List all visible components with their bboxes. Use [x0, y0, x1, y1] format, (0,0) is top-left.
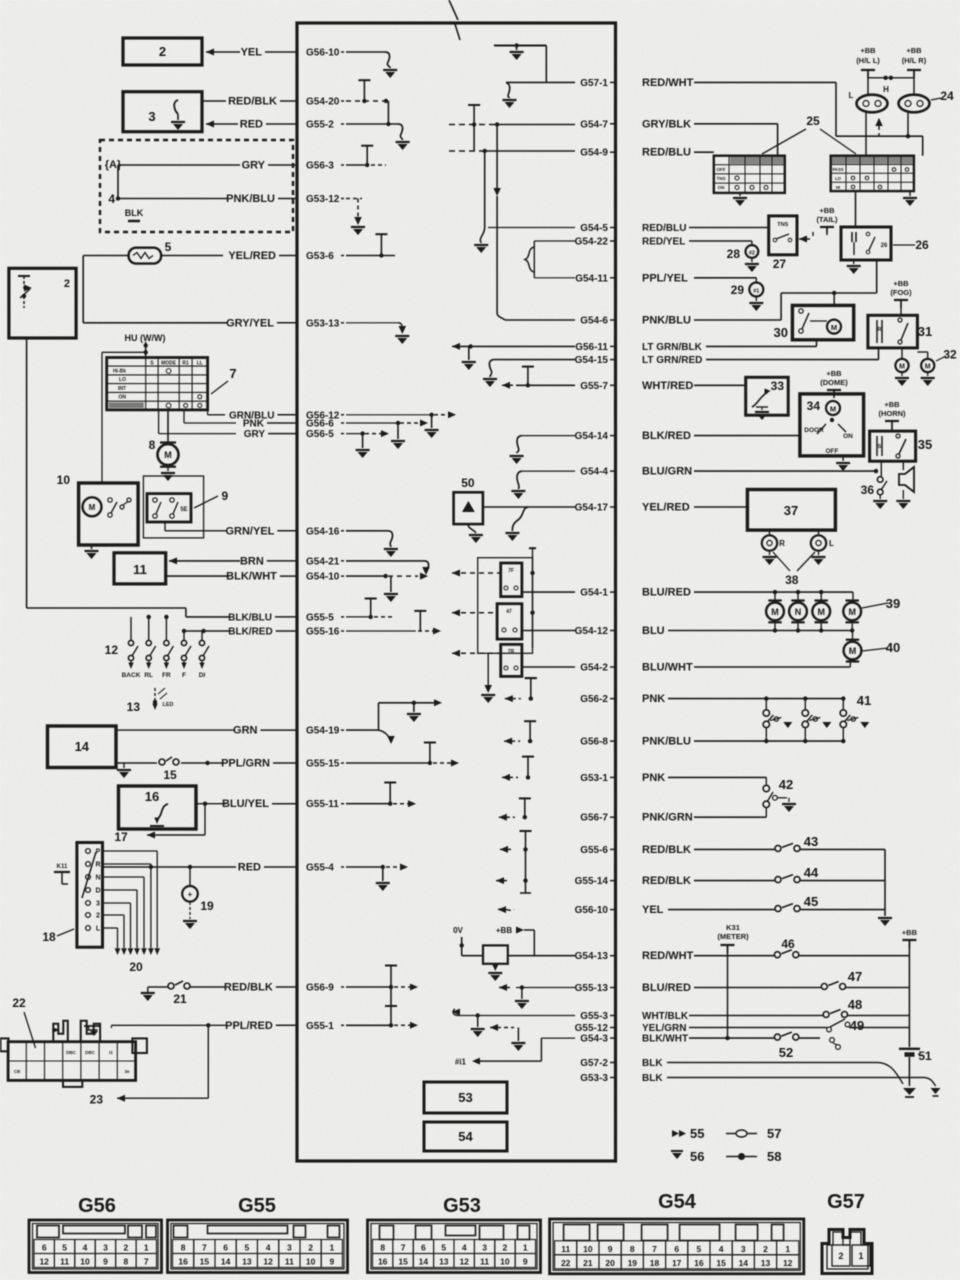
svg-text:RED: RED: [238, 862, 261, 874]
svg-text:R: R: [779, 539, 785, 548]
dashed link to relay 27: [799, 232, 813, 243]
svg-text:12: 12: [459, 1257, 469, 1267]
svg-text:20: 20: [605, 1258, 615, 1268]
wire bundle to 20: [103, 851, 161, 974]
relay 30 box: [774, 305, 854, 340]
svg-text:RED/BLU: RED/BLU: [642, 147, 691, 159]
pin G55-16 internal wire: [346, 611, 441, 635]
svg-text:+BB: +BB: [819, 206, 835, 215]
pin G54-22 wire RED/YEL (right): [575, 237, 686, 248]
pin G54-9 wire RED/BLU (right): [580, 147, 691, 159]
pin G54-19 internal wire: [346, 699, 442, 744]
svg-text:4: 4: [266, 1243, 271, 1253]
svg-text:RL: RL: [144, 672, 153, 679]
horn: [896, 461, 914, 509]
wire BLK/BLU to pin G55-5 (left): [228, 612, 344, 623]
svg-text:G56-7: G56-7: [580, 813, 608, 824]
pin G54-1 internal wire: [522, 591, 575, 593]
wire YEL to pin G56-10 (left): [241, 47, 344, 59]
svg-text:PNK/BLU: PNK/BLU: [642, 315, 691, 327]
svg-text:RED: RED: [240, 119, 263, 131]
switch 21: [141, 981, 226, 1006]
svg-text:21: 21: [173, 992, 187, 1006]
svg-text:50: 50: [461, 476, 475, 490]
svg-text:33: 33: [771, 379, 785, 393]
pin G54-22 internal wire and brace: [525, 241, 575, 278]
svg-text:GRY: GRY: [242, 160, 266, 172]
relay 35 box: [870, 431, 916, 461]
svg-text:S: S: [878, 444, 882, 450]
svg-text:15: 15: [200, 1257, 210, 1267]
wire RED/YEL to 28: [689, 241, 752, 245]
svg-text:11: 11: [285, 1257, 294, 1267]
svg-text:31: 31: [918, 324, 932, 339]
svg-text:M: M: [831, 323, 837, 332]
relay 26 ground: [847, 260, 861, 274]
svg-text:+BB: +BB: [826, 369, 842, 378]
pin G54-12 internal wire: [522, 630, 575, 632]
wire PNK/GRN run: [694, 816, 766, 818]
wire GRY/BLK run: [694, 124, 778, 156]
pin G54-15 wire LT GRN/RED (right): [575, 355, 703, 366]
svg-text:BLK: BLK: [125, 208, 144, 218]
svg-text:5: 5: [165, 240, 172, 254]
LED 13: [127, 688, 174, 714]
component 34 dome switch: [800, 394, 864, 471]
svg-text:38: 38: [785, 573, 799, 587]
wire BRN to pin G54-21 (left): [240, 555, 344, 567]
svg-text:G54-2: G54-2: [580, 663, 608, 674]
svg-text:M: M: [830, 405, 836, 414]
svg-text:10: 10: [500, 1257, 510, 1267]
svg-text:CB: CB: [14, 1069, 21, 1074]
label 39: [862, 596, 900, 611]
svg-text:11: 11: [480, 1257, 489, 1267]
svg-text:1: 1: [785, 1244, 790, 1254]
svg-text:14: 14: [75, 739, 90, 754]
pin G54-17 internal wire: [483, 507, 575, 541]
component 7 switch table: [107, 358, 237, 410]
svg-text:G55-1: G55-1: [306, 1021, 334, 1032]
driver assembly outline: [478, 558, 533, 654]
wire BLU/RED run: [694, 590, 853, 594]
wire table to PNK: [184, 410, 236, 423]
fuse 5: [129, 240, 172, 264]
svg-text:2: 2: [838, 1251, 843, 1261]
svg-text:35: 35: [918, 437, 932, 452]
svg-text:G57: G57: [827, 1191, 865, 1213]
connector G53 label: [443, 1195, 481, 1217]
svg-text:G53-1: G53-1: [580, 773, 608, 784]
wire PNK/BLU run: [694, 739, 846, 743]
switch 45 row: [668, 894, 885, 912]
svg-text:RED/BLK: RED/BLK: [642, 875, 691, 887]
svg-text:L: L: [829, 539, 834, 548]
svg-text:I1: I1: [109, 1050, 113, 1055]
svg-text:RED/WHT: RED/WHT: [642, 77, 694, 89]
wire PPL/RED to pin G55-1 (left): [225, 1020, 344, 1032]
label 4: [108, 192, 115, 206]
pin G54-2 internal wire: [522, 666, 575, 668]
speaker R: [762, 530, 785, 565]
svg-text:16: 16: [694, 1258, 704, 1268]
svg-text:19: 19: [628, 1258, 638, 1268]
svg-text:21: 21: [583, 1258, 593, 1268]
pin G55-15 internal wire: [346, 743, 459, 767]
driver dashed feed 2: [452, 609, 497, 616]
svg-text:G56-11: G56-11: [575, 342, 608, 353]
svg-text:1: 1: [144, 1243, 149, 1253]
svg-text:48: 48: [848, 997, 862, 1012]
svg-text:G56-2: G56-2: [580, 694, 608, 705]
svg-text:8: 8: [149, 438, 156, 452]
pin G55-6 internal stem: [500, 831, 532, 861]
switch bank 12: [105, 617, 209, 669]
wire GRY to pin G56-5 (left): [244, 429, 344, 440]
svg-text:+BB: +BB: [496, 926, 512, 935]
pin G54-6 wire PNK/BLU (right): [580, 315, 691, 327]
main unit box: [297, 23, 616, 1161]
wire RED/BLK stub: [202, 100, 226, 102]
svg-text:INT: INT: [118, 386, 126, 392]
pin G56-8 internal stem: [504, 721, 536, 744]
pin G54-1 wire BLU/RED (right): [580, 587, 691, 599]
pin G56-12 internal wire: [346, 411, 456, 418]
pin G54-10 internal wire: [346, 573, 428, 602]
svg-text:2: 2: [159, 44, 166, 59]
wire table to GRY: [159, 410, 236, 434]
svg-text:R: R: [878, 327, 882, 333]
svg-text:YEL: YEL: [241, 47, 263, 59]
wire PPL/GRN with switch 15: [116, 757, 224, 782]
svg-text:G54-12: G54-12: [575, 626, 609, 637]
svg-text:8: 8: [630, 1244, 635, 1254]
headlight bulb right: [899, 95, 930, 113]
svg-text:M: M: [89, 503, 96, 512]
svg-text:G53-13: G53-13: [306, 318, 340, 329]
svg-text:G54-21: G54-21: [306, 556, 340, 567]
wire relay 26 to PNK/BLU: [694, 260, 877, 320]
svg-text:(FOG): (FOG): [890, 288, 912, 297]
svg-text:M: M: [817, 607, 825, 617]
svg-text:3: 3: [103, 1243, 108, 1253]
svg-text:G53-6: G53-6: [306, 251, 334, 262]
component 9 box: [147, 489, 228, 522]
motor group 39: [766, 592, 861, 630]
svg-text:2: 2: [124, 1243, 129, 1253]
legend symbol 57: [726, 1126, 781, 1141]
component 11 box: [114, 553, 166, 584]
wire GRY/YEL to pin G53-13 (left): [226, 317, 344, 329]
connector G53: [368, 1220, 541, 1273]
pin G53-6 internal wire junction: [346, 234, 395, 258]
component 18 shift position switch: [42, 843, 102, 948]
svg-text:G54-13: G54-13: [575, 951, 609, 962]
svg-text:15: 15: [398, 1257, 408, 1267]
svg-text:G53-3: G53-3: [580, 1073, 608, 1084]
pin G55-7 internal wire: [502, 367, 575, 389]
svg-text:+BB: +BB: [906, 46, 922, 55]
svg-text:R1: R1: [182, 361, 189, 367]
svg-text:G56-9: G56-9: [306, 983, 334, 994]
wire YEL/RED to pin G53-6 (left): [228, 250, 344, 262]
connector G57: [822, 1230, 872, 1274]
breaker 28: [727, 245, 759, 272]
svg-text:PNK: PNK: [642, 693, 665, 705]
svg-text:#2: #2: [749, 251, 755, 257]
svg-text:G54-14: G54-14: [575, 431, 609, 442]
power feed +BB right: [902, 928, 918, 1047]
wire 9 to GRN/YEL: [165, 522, 226, 531]
svg-text:43: 43: [804, 834, 818, 849]
motor 8: [149, 410, 179, 481]
pin G54-2 wire BLU/WHT (right): [580, 662, 693, 674]
wire 17 return: [114, 804, 205, 844]
svg-text:G56-10: G56-10: [306, 48, 340, 59]
svg-text:PASS: PASS: [832, 167, 843, 172]
svg-text:3: 3: [148, 109, 155, 124]
svg-text:G54-7: G54-7: [580, 119, 608, 130]
pin G55-12 internal wire: [490, 1024, 525, 1051]
svg-text:M: M: [925, 364, 931, 371]
svg-text:G54-15: G54-15: [575, 355, 609, 366]
svg-text:YEL: YEL: [642, 904, 664, 916]
svg-text:18: 18: [650, 1258, 660, 1268]
pin G54-7 internal wire: [449, 105, 575, 196]
component 3 box: [123, 92, 202, 132]
pin G53-3 wire BLK (right): [580, 1073, 663, 1084]
svg-text:32: 32: [943, 348, 957, 362]
connector G55: [168, 1220, 348, 1273]
svg-text:GRY/YEL: GRY/YEL: [226, 317, 274, 329]
component 10 box: [57, 473, 138, 545]
pin G56-3 internal wire junction: [346, 146, 386, 168]
svg-text:PNK/BLU: PNK/BLU: [226, 193, 275, 205]
svg-text:LT GRN/BLK: LT GRN/BLK: [642, 342, 703, 353]
svg-text:G53: G53: [443, 1195, 481, 1217]
svg-text:10: 10: [583, 1244, 593, 1254]
svg-text:G56-10: G56-10: [575, 905, 609, 916]
pin G54-3 wire BLK/WHT (right): [580, 1034, 688, 1045]
svg-text:2: 2: [96, 913, 100, 920]
svg-text:LT GRN/RED: LT GRN/RED: [642, 355, 702, 366]
svg-text:5: 5: [245, 1243, 250, 1253]
component 53 box: [424, 1082, 507, 1113]
power feed +BB H/L R: [902, 46, 927, 95]
svg-text:M: M: [848, 607, 856, 617]
wire BLU/WHT run: [694, 660, 850, 668]
power feed +BB FOG: [890, 279, 912, 315]
svg-text:9: 9: [330, 1257, 335, 1267]
svg-text:G55-2: G55-2: [306, 120, 334, 131]
power feed +BB HORN: [878, 400, 906, 431]
svg-text:BLK/BLU: BLK/BLU: [228, 612, 272, 623]
svg-text:LED: LED: [163, 702, 174, 708]
page tick mark: [449, 0, 460, 40]
pin G56-5 internal wire: [346, 423, 405, 458]
svg-text:ON: ON: [843, 433, 853, 440]
wire YEL/RED from fuse: [83, 255, 223, 257]
svg-text:42: 42: [779, 777, 793, 792]
svg-text:55: 55: [690, 1126, 704, 1141]
svg-text:G54-11: G54-11: [575, 273, 608, 284]
wire BLU/GRN run: [694, 469, 878, 473]
svg-text:16: 16: [178, 1257, 188, 1267]
pin G54-21 internal wire: [346, 561, 430, 575]
svg-text:51: 51: [918, 1049, 932, 1063]
svg-text:3: 3: [96, 901, 100, 908]
svg-text:3: 3: [287, 1243, 292, 1253]
svg-text:BLK: BLK: [642, 1073, 663, 1084]
svg-text:DBC: DBC: [66, 1050, 76, 1055]
connector G56 label: [78, 1195, 116, 1217]
pin G56-11 internal wire: [452, 343, 575, 370]
bus 43-45 to ground: [878, 849, 892, 926]
pin G55-14 internal stem: [496, 861, 531, 893]
table 25 left ground: [733, 193, 747, 206]
svg-text:1: 1: [858, 1251, 863, 1261]
svg-text:49: 49: [850, 1018, 864, 1033]
svg-text:18: 18: [42, 930, 56, 944]
pin G56-10b internal wire: [498, 906, 514, 913]
svg-text:BLK/RED: BLK/RED: [642, 430, 691, 442]
switch 36: [861, 461, 888, 509]
svg-text:G55-3: G55-3: [580, 1011, 608, 1022]
svg-text:N: N: [95, 875, 100, 882]
svg-text:15: 15: [163, 768, 177, 782]
svg-text:PNK: PNK: [243, 419, 265, 430]
svg-text:8: 8: [124, 1257, 129, 1267]
svg-text:YEL/RED: YEL/RED: [642, 502, 690, 514]
svg-text:PNK: PNK: [642, 772, 665, 784]
svg-text:58: 58: [767, 1149, 781, 1164]
svg-text:3: 3: [741, 1244, 746, 1254]
svg-text:(HORN): (HORN): [878, 409, 906, 418]
wire RED stub with arrow: [206, 121, 238, 128]
component 54 box: [424, 1122, 507, 1151]
svg-text:7R: 7R: [508, 649, 515, 655]
component 4 dashed box: [100, 140, 293, 232]
pin G54-12 wire BLU (right): [575, 625, 665, 637]
svg-text:2: 2: [308, 1243, 313, 1253]
svg-text:DBC: DBC: [85, 1050, 95, 1055]
connector G54: [550, 1219, 804, 1274]
svg-text:2: 2: [503, 1243, 508, 1253]
svg-text:RED/BLK: RED/BLK: [224, 982, 273, 994]
svg-text:G54-9: G54-9: [580, 148, 608, 159]
connector G54 label: [658, 1191, 697, 1213]
pin G54-14 internal wire to ground: [510, 436, 575, 464]
pin G56-2 internal stem: [505, 678, 537, 702]
wire BLK/RED row left: [182, 629, 229, 633]
svg-text:H: H: [883, 85, 889, 94]
pin G54-11 internal wire: [534, 277, 575, 279]
svg-text:RED/BLK: RED/BLK: [642, 844, 691, 856]
wire RED/WHT run: [694, 82, 923, 155]
svg-text:2: 2: [763, 1244, 768, 1254]
wire RED row left: [104, 865, 236, 869]
svg-text:G54-4: G54-4: [580, 467, 608, 478]
svg-text:13: 13: [761, 1258, 771, 1268]
svg-text:17: 17: [672, 1258, 682, 1268]
component 14 box: [48, 726, 117, 768]
wire BLK/WHT from 11: [166, 575, 229, 577]
pin G56-7 internal stem: [499, 798, 531, 820]
svg-text:G53-12: G53-12: [306, 194, 340, 205]
pin G54-3 internal wire: [455, 1038, 575, 1066]
svg-text:G54-22: G54-22: [575, 237, 609, 248]
svg-text:G55-4: G55-4: [306, 863, 334, 874]
svg-text:BLK/RED: BLK/RED: [228, 627, 272, 638]
svg-text:GRY: GRY: [244, 429, 266, 440]
wire LT GRN/BLK run: [706, 340, 817, 347]
pin G56-8 wire PNK/BLU (right): [580, 736, 691, 748]
svg-text:45: 45: [804, 894, 818, 909]
svg-text:22: 22: [12, 996, 26, 1010]
lamp 19: [182, 867, 214, 929]
svg-text:6: 6: [421, 1243, 426, 1253]
K11 power symbol: [54, 864, 70, 884]
svg-text:5E: 5E: [180, 507, 187, 513]
svg-text:G54-17: G54-17: [575, 503, 609, 514]
legend symbol 58: [726, 1149, 781, 1164]
wire PPL/YEL run: [694, 278, 756, 283]
svg-text:G54-6: G54-6: [580, 316, 608, 327]
0V label: [453, 926, 463, 935]
svg-text:5: 5: [62, 1243, 67, 1253]
svg-text:HU (W/W): HU (W/W): [125, 333, 166, 343]
svg-text:26: 26: [915, 238, 929, 252]
svg-text:ON: ON: [119, 395, 127, 401]
wire GRY inside box4: [118, 165, 240, 199]
svg-text:34: 34: [807, 399, 821, 413]
svg-text:BLU/GRN: BLU/GRN: [642, 466, 692, 478]
component 2 box (left): [9, 268, 76, 338]
svg-text:(TAIL): (TAIL): [816, 215, 838, 224]
svg-text:G56-3: G56-3: [306, 161, 334, 172]
svg-text:24: 24: [940, 89, 954, 103]
wire PPL/GRN to pin G55-15 (left): [221, 758, 344, 770]
svg-text:GRY/BLK: GRY/BLK: [642, 118, 691, 130]
legend symbol 56: [671, 1149, 704, 1164]
svg-text:15: 15: [716, 1258, 726, 1268]
pin G56-10 internal wire to ground: [346, 52, 397, 78]
svg-text:4: 4: [83, 1243, 88, 1253]
svg-text:16: 16: [378, 1257, 388, 1267]
wire BLK/WHT to pin G54-10 (left): [226, 571, 344, 583]
svg-text:29: 29: [731, 283, 745, 297]
component 22 connector: [1, 996, 147, 1087]
svg-text:RED/WHT: RED/WHT: [642, 950, 694, 962]
component 37 box: [747, 490, 835, 531]
pin G54-14 wire BLK/RED (right): [575, 430, 691, 442]
svg-text:K11: K11: [57, 864, 68, 870]
wire GRN/BLU to pin G56-12 (left): [229, 410, 344, 421]
svg-text:G55-6: G55-6: [580, 845, 608, 856]
switch 49 row YEL/GRN: [689, 1018, 909, 1049]
svg-text:G56-6: G56-6: [306, 419, 334, 430]
wire RED/BLU to relay 27: [689, 227, 769, 229]
svg-text:G54-10: G54-10: [306, 572, 340, 583]
svg-text:N: N: [795, 607, 802, 617]
svg-text:20: 20: [129, 960, 143, 974]
svg-text:4: 4: [462, 1243, 467, 1253]
pin G55-14 wire RED/BLK (right): [575, 875, 691, 887]
svg-text:G57-2: G57-2: [580, 1058, 608, 1069]
pin G54-15 internal wire: [483, 360, 575, 387]
svg-text:7F: 7F: [508, 568, 514, 574]
svg-text:6: 6: [674, 1244, 679, 1254]
